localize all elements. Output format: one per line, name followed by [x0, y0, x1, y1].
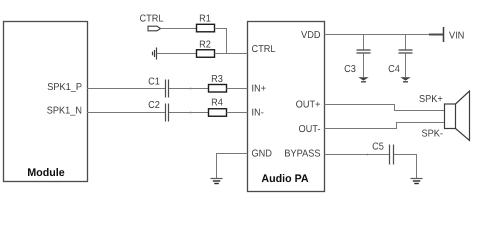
- ground arrow under C4: [400, 77, 410, 82]
- wire SPK1_P to C1: [87, 88, 165, 90]
- junction dot on IN+ wire: [190, 88, 192, 90]
- net label CTRL: [140, 15, 163, 22]
- speaker LS1: [445, 91, 470, 141]
- capacitor C5: [373, 143, 394, 165]
- capacitor C3: [345, 35, 371, 78]
- wire R3 to IN+: [227, 88, 248, 90]
- wire ground to R2: [157, 53, 197, 55]
- wire R2 to CTRL pin: [215, 53, 248, 55]
- wire GND pin to ground: [217, 154, 248, 179]
- pin CTRL label: [252, 45, 275, 52]
- port connector CTRL: [148, 26, 161, 31]
- resistor R1: [197, 15, 215, 32]
- pin SPK1_P label: [48, 83, 82, 92]
- ground (left-pointing) at R2 input: [153, 48, 157, 60]
- ground at C5: [411, 179, 423, 184]
- wire VDD rail: [325, 34, 444, 36]
- ground arrow under C3: [358, 77, 368, 82]
- capacitor C2: [149, 101, 169, 122]
- VIN terminal bar: [443, 27, 445, 42]
- pin GND label: [252, 150, 272, 157]
- pin IN- label: [252, 109, 263, 116]
- pin SPK1_N label: [47, 107, 81, 116]
- pin VDD label: [301, 31, 320, 38]
- wire C2 to R4: [169, 112, 209, 114]
- Module box: [4, 22, 88, 182]
- wire R4 to IN-: [227, 112, 248, 114]
- pin OUT- label: [299, 125, 320, 132]
- wire OUT+ to speaker: [325, 105, 445, 111]
- resistor R2: [197, 41, 215, 58]
- wire port to R1: [161, 28, 197, 30]
- resistor R3: [209, 75, 227, 92]
- wire SPK1_N to C2: [87, 112, 165, 114]
- wire C1 to R3: [169, 88, 209, 90]
- junction dot on IN- wire: [190, 112, 192, 114]
- net label VIN: [449, 32, 464, 39]
- Audio PA box U1: [248, 22, 325, 192]
- net label SPK+: [419, 95, 442, 102]
- pin IN+ label: [252, 85, 265, 92]
- net label SPK-: [422, 130, 443, 137]
- junction dot on BYPASS wire: [367, 154, 369, 156]
- VIN terminal stub: [429, 34, 444, 36]
- pin BYPASS label: [285, 150, 320, 157]
- wire C5 to ground: [394, 155, 417, 179]
- resistor R4: [209, 99, 227, 117]
- ground at GND pin: [211, 179, 223, 184]
- wire R1 to junction down to CTRL net: [215, 29, 227, 54]
- wire OUT- to speaker: [325, 123, 445, 129]
- pin OUT+ label: [296, 101, 320, 108]
- wire BYPASS to C5: [325, 154, 390, 156]
- capacitor C1: [149, 78, 169, 98]
- capacitor C4: [389, 35, 413, 78]
